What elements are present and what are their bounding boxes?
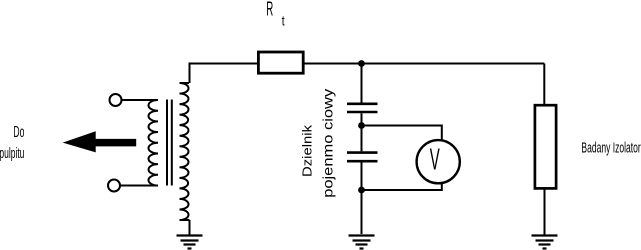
ground transformer <box>177 236 203 249</box>
ground divider <box>349 236 375 249</box>
wire dot1 to voltmeter top <box>362 126 442 142</box>
insulator under test <box>535 105 556 188</box>
svg-text:t: t <box>282 12 285 28</box>
svg-text:V: V <box>430 141 440 176</box>
wire right corner down to insulator <box>543 64 545 106</box>
svg-text:Badany Izolator: Badany Izolator <box>581 139 640 156</box>
ground insulator <box>532 236 558 249</box>
wire secondary bottom to ground <box>189 220 191 235</box>
transformer T1 primary terminal bottom <box>108 180 120 192</box>
wire dot2 to voltmeter bottom <box>362 183 442 191</box>
text Do pulpitu <box>0 124 24 162</box>
arrow to control desk <box>63 131 137 152</box>
capacitor C1 <box>347 104 378 112</box>
svg-text:pulpitu: pulpitu <box>0 146 24 162</box>
voltmeter <box>417 140 460 183</box>
wire divider top segment <box>361 64 363 103</box>
svg-text:pojenmo ciowy: pojenmo ciowy <box>319 89 335 198</box>
capacitor C2 <box>347 153 378 162</box>
node dot between capacitors <box>358 122 365 129</box>
svg-text:R: R <box>266 0 273 20</box>
node junction top of divider <box>358 60 365 67</box>
transformer core <box>167 100 172 186</box>
node dot below C2 <box>358 187 365 194</box>
svg-text:Dzielnik: Dzielnik <box>300 124 315 177</box>
transformer T1 primary winding <box>148 100 158 186</box>
wire divider bottom segment <box>361 163 363 235</box>
svg-text:Do: Do <box>13 124 24 141</box>
wire resistor to right corner <box>305 63 545 65</box>
wire divider middle segment <box>361 113 363 151</box>
label Rt <box>266 0 285 28</box>
transformer T1 secondary winding <box>180 83 190 220</box>
wire terminal top to primary <box>122 99 159 101</box>
wire transformer-top to resistor <box>190 64 258 84</box>
resistor Rt <box>258 52 303 73</box>
wire terminal bottom to primary <box>120 185 158 187</box>
wire insulator to ground <box>544 189 546 236</box>
transformer T1 primary terminal top <box>110 94 122 106</box>
